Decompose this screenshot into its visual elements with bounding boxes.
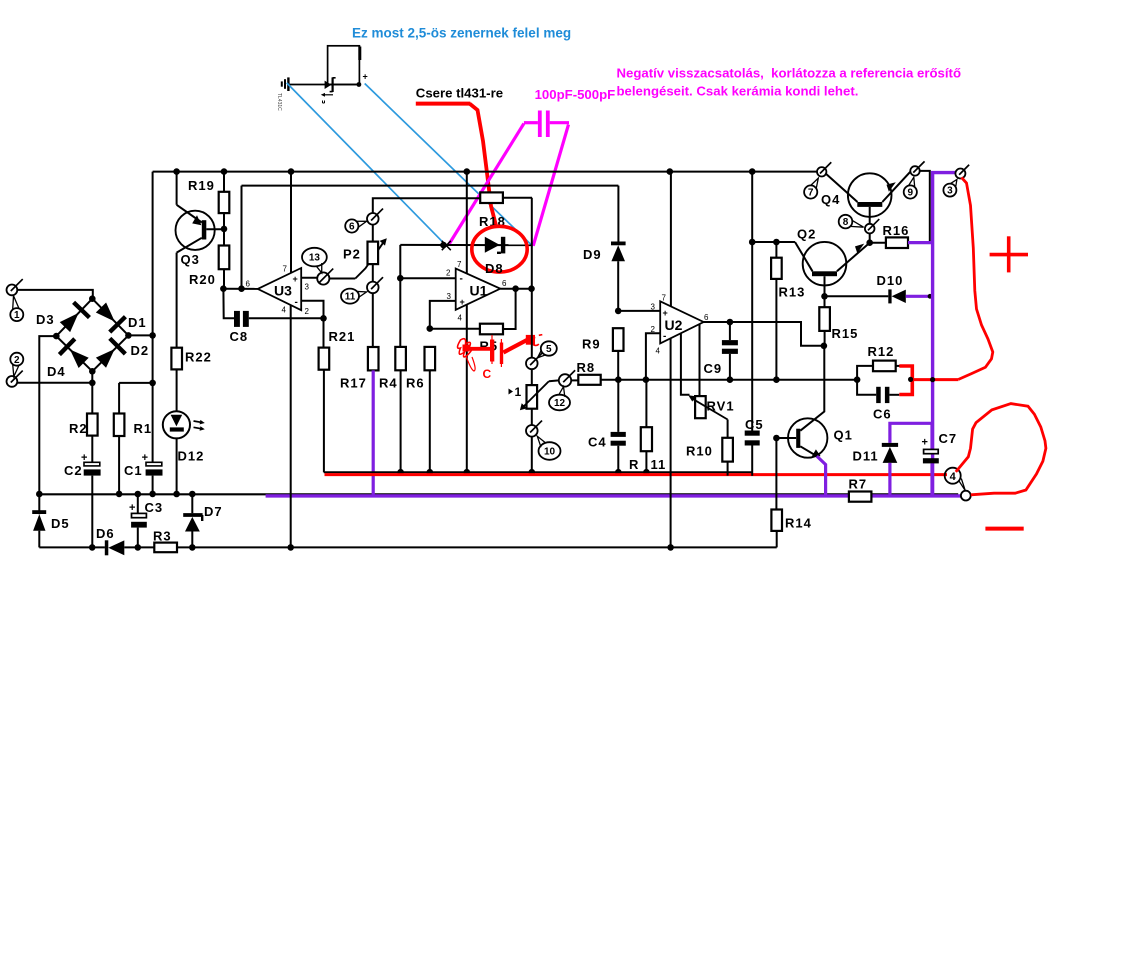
svg-text:D5: D5 [51,516,70,531]
capacitor C4 [611,376,626,472]
capacitor C5 [745,172,760,476]
svg-text:3: 3 [447,292,452,301]
svg-text:7: 7 [662,294,667,303]
wire U3 pin4 to aux rail [290,305,292,547]
svg-text:R4: R4 [379,376,398,391]
svg-text:Q1: Q1 [834,428,853,443]
svg-text:TL431C: TL431C [276,93,282,111]
label R19 [188,178,215,193]
svg-text:Ez most 2,5-ös zenernek felel: Ez most 2,5-ös zenernek felel meg [352,26,571,41]
wire U1 pin7 supply [466,172,468,274]
node label 12 [549,387,570,411]
svg-text:R8: R8 [577,360,596,375]
resistor R14 [771,438,782,547]
svg-text:Csere tl431-re: Csere tl431-re [416,86,503,101]
svg-text:C3: C3 [145,500,164,515]
svg-text:6: 6 [502,279,507,288]
main frame left rail [149,172,156,463]
label R3 [153,529,172,544]
label Q3 [181,252,200,267]
resistor R9 [613,328,624,380]
label C9 [704,361,723,376]
bridge node dots [53,295,132,386]
resistor R12 [857,361,901,380]
resistor R8 [578,375,600,385]
svg-text:7: 7 [808,188,814,199]
svg-text:13: 13 [309,253,321,264]
label D11 [853,449,879,464]
label R6 [406,376,425,391]
annotation text: Negativ visszacsatolas line1 [617,66,962,81]
wire 0V rail [36,491,958,498]
resistor R11 [641,380,652,473]
annotation blue pointer line A [287,83,446,245]
red cable loop at minus terminal [956,404,1046,495]
terminal T4 [961,491,971,501]
U1 pin numbers [446,260,507,323]
diode D4 [56,336,92,371]
diode D1 [92,299,128,336]
svg-text:D2: D2 [131,343,150,358]
svg-text:D3: D3 [36,312,55,327]
terminal T9 [910,161,924,175]
annotation text: Ez most 2,5-os zenernek felel meg [352,26,571,41]
wire Q2 base line [752,239,795,246]
annotation magenta pointer line 2 [533,125,568,246]
svg-text:R17: R17 [340,376,367,391]
capacitor C8 [223,289,323,327]
node label 11 [341,289,367,304]
wire purple branch to D11 [890,423,933,443]
label C7 [939,431,958,446]
resistor R18 [480,192,532,203]
node label 3 [943,180,957,197]
wire U3 output node [220,285,258,292]
svg-text:U3: U3 [274,283,292,299]
annotation black x mark at D8 anode [442,241,451,250]
svg-text:C5: C5 [745,417,764,432]
svg-text:R12: R12 [868,344,895,359]
red annotation bracket at R12 [899,366,912,395]
svg-text:R3: R3 [153,529,172,544]
label R21 [329,329,356,344]
wire bridge right to main left rail [128,334,152,336]
terminal T8 [865,219,879,233]
wire U1 output [500,285,535,292]
label P1 [509,385,522,399]
svg-text:D11: D11 [853,449,879,464]
svg-text:+: + [922,437,928,449]
wire P2 top corner [373,198,480,213]
label R14 [785,516,812,531]
P1 wiper arrow [520,381,549,410]
potentiometer P2 [368,224,379,282]
label D5 [51,516,70,531]
wire T13 to P2 wiper [329,278,356,280]
wire U3 pin3 [301,277,318,279]
svg-text:C2: C2 [64,463,83,478]
U2 pin numbers [651,294,710,356]
resistor R2 [87,383,98,463]
node label 13 [302,248,327,273]
annotation sketch: wire [288,84,359,86]
wire U3 pin7 supply [290,172,292,273]
annotation red pointer line [416,104,496,226]
red circle around D8 [472,226,527,272]
wire RV1 top riser [699,324,701,396]
label R13 [779,285,806,300]
wire U3 pin2 [301,301,327,322]
label R4 [379,376,398,391]
node label 1 [10,296,23,321]
annotation magenta capacitor sketch [524,111,569,138]
label Q1 [834,428,853,443]
wire U2 pin3 [618,310,660,312]
svg-text:D6: D6 [96,526,115,541]
wire D8 anode riser [397,245,404,282]
label R18 [479,214,506,229]
svg-text:R22: R22 [185,350,212,365]
red output wire [908,377,959,382]
label C3 [145,500,164,515]
svg-text:-: - [295,297,298,308]
svg-text:+: + [129,502,135,514]
svg-text:R6: R6 [406,376,425,391]
wire output sense line [571,376,860,383]
terminal T1 [6,279,22,295]
svg-text:C8: C8 [230,329,249,344]
wire purple 0V bus [266,494,961,497]
wire U3 output feedback riser [241,186,243,289]
svg-text:10: 10 [544,447,556,458]
svg-text:R14: R14 [785,516,812,531]
resistor R22 [171,348,182,370]
svg-text:D1: D1 [128,315,147,330]
wire D8 net [400,242,532,249]
annotation sketch: node dot and plus [357,72,368,87]
svg-text:11: 11 [651,457,667,472]
resistor R16 [870,237,908,248]
resistor R15 [819,296,830,346]
svg-text:+: + [663,308,668,318]
wire purple D10 to rail [906,294,933,299]
wire top bus [153,168,818,175]
terminal T7 [817,162,831,176]
wire U2 output [704,319,828,349]
label R20 [189,272,216,287]
wire purple R16 to rail [908,241,933,244]
annotation blue pointer line B [365,84,533,247]
svg-text:3: 3 [305,283,310,292]
wire purple Q1 emitter [817,456,826,496]
label R12 [868,344,895,359]
red annotation capacitor at R5 [458,335,543,371]
wire lower aux rail [39,544,776,551]
annotation magenta pointer line 1 [449,124,524,246]
potentiometer RV1 [695,396,706,418]
svg-text:R1: R1 [134,421,153,436]
svg-text:U2: U2 [665,317,683,333]
svg-text:2: 2 [446,269,451,278]
svg-text:R13: R13 [779,285,806,300]
svg-text:R16: R16 [883,223,910,238]
resistor R1 [114,383,125,494]
wire T1 to bridge [17,290,93,299]
svg-text:11: 11 [345,292,356,303]
svg-text:3: 3 [651,303,656,312]
diode D6 [105,540,125,555]
label R22 [185,350,212,365]
svg-text:U1: U1 [470,283,488,299]
label R16 [883,223,910,238]
label D6 [96,526,115,541]
annotation sketch: ground symbol [282,77,289,91]
annotation text: 100pF-500pF [535,87,616,102]
diode D7 [183,494,202,547]
svg-text:2: 2 [14,355,20,366]
svg-text:C9: C9 [704,361,723,376]
terminal T12 [559,370,575,386]
svg-text:-: - [663,331,666,342]
svg-text:C6: C6 [873,407,892,422]
label R7 [849,477,868,492]
resistor R7 [849,492,872,502]
label R2 [69,421,88,436]
red minus symbol [985,527,1023,531]
node label 2 [10,353,23,377]
label R5 [480,339,499,354]
svg-text:+: + [460,297,465,307]
wire U1 pin4 down [466,305,468,473]
wire U2 pin2 [643,333,661,383]
wire purple plus rail [930,173,956,497]
transistor Q3 [176,172,225,348]
resistor R5 [430,289,516,335]
capacitor C9 [722,322,738,383]
terminal T3 [955,165,969,179]
svg-text:C7: C7 [939,431,958,446]
node label 10 [537,436,560,460]
svg-text:D12: D12 [178,449,205,464]
svg-text:D8: D8 [485,261,504,276]
svg-text:100pF-500pF: 100pF-500pF [535,87,616,102]
svg-text:R21: R21 [329,329,356,344]
label R10 [686,444,713,459]
svg-text:4: 4 [950,471,957,483]
label RV1 [707,399,735,414]
label R1 [134,421,153,436]
label P2 [343,247,361,262]
label R15 [832,326,859,341]
label R11 [629,457,666,472]
svg-text:R15: R15 [832,326,859,341]
node label 6 [345,219,366,232]
svg-text:D7: D7 [204,504,223,519]
wire U1 pin2 [400,277,455,279]
wire R1 top link [119,382,153,384]
terminal T10 [526,421,542,437]
annotation sketch: tiny rotated label [276,93,282,111]
wire wiper to T12 [549,379,559,382]
wire U2 pin4 to aux rail [670,338,672,547]
terminal T2 [6,371,22,387]
svg-text:4: 4 [656,347,661,356]
label D2 [131,343,150,358]
diode D8 [485,237,506,254]
wire T10 to rail [531,436,533,472]
wire purple R17 to bus [372,370,375,496]
P2 wiper arrow [355,238,387,278]
svg-text:C: C [483,367,492,381]
svg-text:R7: R7 [849,477,868,492]
resistor R6 [425,347,436,472]
annotation text: Csere tl431-re [416,86,503,101]
svg-text:6: 6 [349,222,355,233]
label R8 [577,360,596,375]
svg-text:4: 4 [282,306,287,315]
label C2 [64,463,83,478]
capacitor C2 [81,452,101,547]
svg-text:belengéseit. Csak kerámia kond: belengéseit. Csak kerámia kondi lehet. [617,84,859,99]
svg-text:C1: C1 [124,463,143,478]
label C4 [588,435,607,450]
wire T2 to bridge bottom [17,382,92,384]
svg-text:RV1: RV1 [707,399,735,414]
node label 8 [839,215,864,229]
red cable to plus terminal [959,178,993,380]
svg-text:5: 5 [546,344,552,355]
svg-text:+: + [363,72,368,82]
resistor R10 [722,420,733,476]
wire bridge bottom stub [91,371,93,383]
resistor R19 [219,172,230,233]
node label 7 [804,178,818,199]
op-amp U2 [660,301,703,343]
resistor R3 [154,543,177,553]
wire Q2 emitter node [821,293,888,300]
svg-text:12: 12 [554,398,566,409]
wire purple D11 to rail [888,463,891,495]
svg-text:R: R [629,457,639,472]
svg-text:R19: R19 [188,178,215,193]
wire U2 pin7 supply [670,172,672,307]
label D7 [204,504,223,519]
label C5 [745,417,764,432]
annotation text: Negativ visszacsatolas line2 [617,84,859,99]
label Q2 [797,227,816,242]
op-amp U3 [258,268,302,310]
svg-text:R9: R9 [582,337,601,352]
wire center column [531,198,533,358]
annotation sketch: small ref arrow [321,93,333,103]
capacitor C1 [142,452,163,494]
resistor R4 [395,278,406,472]
diode D5 [32,494,46,547]
wire bridge left to minus rail [39,336,56,494]
op-amp U1 [456,269,501,310]
label D10 [877,273,904,288]
capacitor C6 [857,380,899,403]
resistor R21 [319,318,330,472]
svg-text:7: 7 [457,260,462,269]
svg-text:D10: D10 [877,273,904,288]
transistor Q4 [826,171,911,224]
svg-text:6: 6 [704,313,709,322]
resistor R20 [219,229,230,289]
svg-text:1: 1 [515,385,522,399]
diode D9 zener [611,186,626,315]
wire T9 corner down [920,171,930,243]
svg-text:C4: C4 [588,435,607,450]
wire T8 to R16 node [866,233,873,246]
wire U2 to RV1 wiper [681,334,690,395]
svg-text:-: - [460,274,463,285]
potentiometer P1 [527,369,538,426]
svg-text:Q4: Q4 [821,192,840,207]
svg-text:P2: P2 [343,247,361,262]
terminal T6 [367,209,383,225]
terminal T11 [367,277,383,293]
svg-text:8: 8 [843,217,849,228]
terminal T5 [526,353,542,369]
svg-text:7: 7 [283,265,288,274]
node label 4 [945,468,966,491]
diode D10 [888,289,906,303]
svg-text:2: 2 [305,307,310,316]
node label 5 [538,341,557,358]
label D9 [583,247,602,262]
RV1 wiper arrow [688,395,727,419]
svg-text:R20: R20 [189,272,216,287]
node label 9 [904,177,917,198]
label R17 [340,376,367,391]
capacitor C3 [129,494,147,547]
label C1 [124,463,143,478]
label Q4 [821,192,840,207]
transistor Q2 [795,242,870,296]
label D4 [47,364,66,379]
red annotation bus line [325,473,948,476]
svg-text:R5: R5 [480,339,499,354]
label D1 [128,315,147,330]
svg-text:Q3: Q3 [181,252,200,267]
annotation sketch: zener diode [325,77,336,92]
wire U1 pin3 [427,301,456,332]
label D3 [36,312,55,327]
transistor Q1 [773,346,827,458]
label C8 [230,329,249,344]
svg-text:6: 6 [246,280,251,289]
svg-text:3: 3 [947,186,953,197]
label D8 [485,261,504,276]
label R9 [582,337,601,352]
terminal T13 [317,269,333,285]
svg-text:D4: D4 [47,364,66,379]
annotation sketch: TL431 box [328,46,360,85]
diode D11 [882,443,898,463]
wire reference line [242,185,619,187]
svg-text:1: 1 [14,310,20,321]
svg-text:4: 4 [458,314,463,323]
label C6 [873,407,892,422]
svg-text:D9: D9 [583,247,602,262]
capacitor C7 [922,423,939,496]
diode D3 [56,299,92,336]
wire inner ground bus [324,469,753,476]
svg-text:Q2: Q2 [797,227,816,242]
svg-text:R10: R10 [686,444,713,459]
svg-text:R2: R2 [69,421,88,436]
